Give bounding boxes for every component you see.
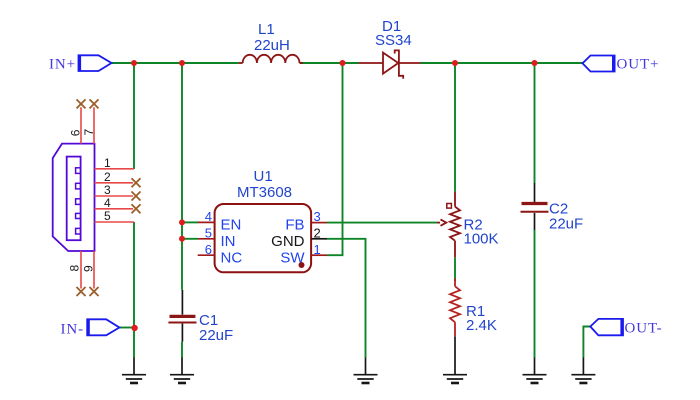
svg-text:5: 5 <box>104 209 111 223</box>
svg-text:7: 7 <box>82 129 96 136</box>
svg-text:2: 2 <box>314 226 321 241</box>
svg-text:3: 3 <box>314 209 321 224</box>
svg-text:OUT+: OUT+ <box>617 57 660 73</box>
svg-text:L1: L1 <box>258 21 275 38</box>
svg-text:GND: GND <box>271 233 305 250</box>
svg-text:6: 6 <box>205 242 212 257</box>
svg-text:U1: U1 <box>254 168 273 185</box>
svg-text:IN+: IN+ <box>49 57 76 73</box>
svg-text:NC: NC <box>221 249 243 266</box>
svg-text:4: 4 <box>104 196 111 210</box>
svg-text:100K: 100K <box>464 231 499 248</box>
svg-text:6: 6 <box>69 129 83 136</box>
svg-text:9: 9 <box>82 265 96 272</box>
svg-text:8: 8 <box>68 265 82 272</box>
svg-text:MT3608: MT3608 <box>237 184 292 201</box>
svg-text:2: 2 <box>104 170 111 184</box>
svg-text:OUT-: OUT- <box>625 321 663 337</box>
svg-text:EN: EN <box>221 217 242 234</box>
svg-text:22uF: 22uF <box>549 216 583 233</box>
svg-text:1: 1 <box>104 156 111 170</box>
svg-text:IN-: IN- <box>61 322 85 338</box>
svg-text:4: 4 <box>205 209 212 224</box>
svg-text:SS34: SS34 <box>375 32 412 49</box>
svg-text:22uF: 22uF <box>199 327 233 344</box>
svg-text:SW: SW <box>280 249 305 266</box>
svg-text:FB: FB <box>285 217 304 234</box>
svg-text:22uH: 22uH <box>254 37 290 54</box>
svg-text:IN: IN <box>221 233 236 250</box>
svg-text:5: 5 <box>205 226 212 241</box>
svg-text:2.4K: 2.4K <box>466 317 497 334</box>
svg-text:1: 1 <box>314 242 321 257</box>
